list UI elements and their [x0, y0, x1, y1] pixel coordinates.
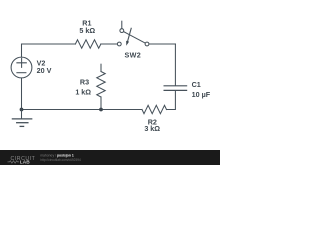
svg-text:SW2: SW2 [124, 51, 141, 60]
svg-text:LAB: LAB [20, 159, 30, 165]
wire R3 bottom stub [100, 97, 102, 110]
wire V2 bottom to ground node [21, 78, 23, 109]
CircuitLab logo resistor squiggle [8, 161, 20, 163]
capacitor C1 top plate [164, 85, 187, 87]
switch SW2 right terminal [145, 42, 149, 46]
svg-text:C1: C1 [192, 80, 201, 89]
switch SW2 actuation arrow shaft [128, 28, 132, 41]
ground stem [21, 110, 23, 119]
svg-text:http://circuitlab.com/c692594: http://circuitlab.com/c692594 [40, 158, 81, 162]
switch SW2 actuation arrowhead [126, 41, 129, 46]
wire bottom rail from ground node to R2 left [22, 109, 143, 111]
svg-text:mahoney / posisjon 1: mahoney / posisjon 1 [40, 153, 74, 157]
switch SW2 left terminal [117, 42, 121, 46]
svg-text:R3: R3 [80, 78, 89, 87]
node junction ground [20, 108, 24, 112]
switch SW2 top terminal [120, 29, 124, 33]
voltage source V2 circle [11, 57, 32, 78]
wire C1 bottom to R2 right [167, 91, 176, 110]
voltage source V2 minus sign [17, 72, 26, 74]
svg-text:1 kΩ: 1 kΩ [75, 87, 91, 96]
resistor R2 [142, 105, 167, 113]
wire from V2 top to R1 left [22, 44, 76, 57]
wire R1 right to SW2 left terminal [101, 43, 117, 45]
wire SW2 right terminal to top-right corner [149, 43, 175, 45]
footer banner background [0, 150, 220, 165]
voltage source V2 plus sign [17, 58, 26, 67]
ground bar 1 [12, 118, 31, 120]
wire SW2 top stub [121, 21, 123, 28]
resistor R3 top stub [100, 64, 102, 71]
svg-text:10 µF: 10 µF [192, 90, 211, 99]
resistor R1 [75, 40, 101, 48]
svg-text:20 V: 20 V [37, 66, 52, 75]
resistor R3 [97, 72, 105, 98]
capacitor C1 bottom plate [164, 89, 187, 91]
svg-text:3 kΩ: 3 kΩ [144, 124, 160, 133]
node junction R3 bottom [99, 108, 103, 112]
wire right rail down to C1 top [174, 44, 176, 85]
switch SW2 lever [124, 32, 146, 43]
ground bar 3 [20, 125, 23, 127]
ground bar 2 [17, 122, 28, 124]
svg-text:5 kΩ: 5 kΩ [79, 26, 95, 35]
